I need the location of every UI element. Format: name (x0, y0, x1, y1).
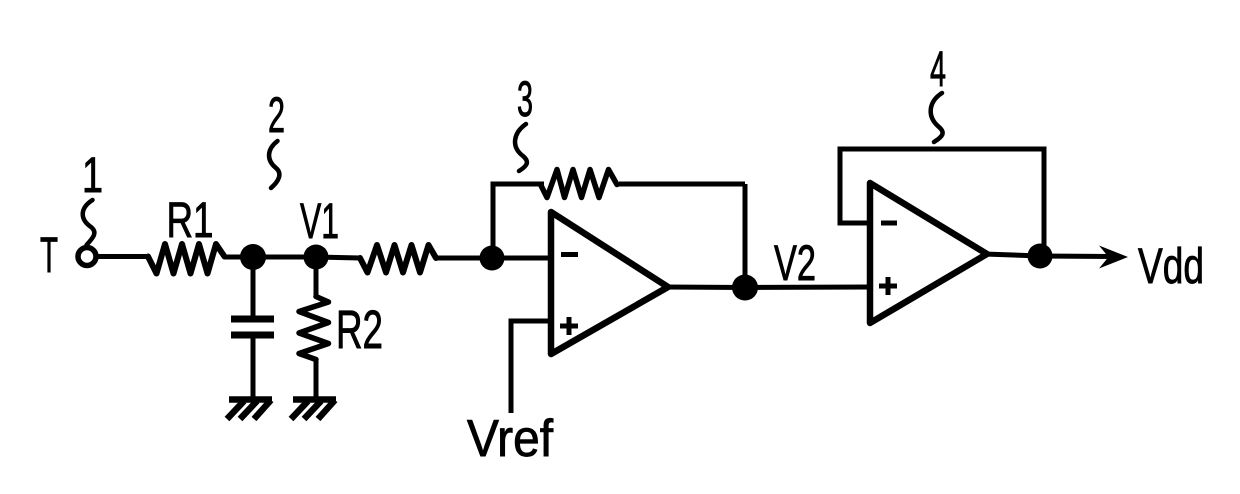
op-amp 3 non-inverting input '+' (560, 317, 578, 335)
svg-text:1: 1 (82, 147, 103, 203)
op-amp 4 triangle (870, 183, 987, 323)
output node (Vdd) junction (1028, 244, 1053, 269)
svg-text:V1: V1 (300, 193, 339, 249)
capacitor bottom plate (231, 332, 274, 339)
output node V2 junction (732, 275, 758, 301)
op-amp 4 inverting input '-' (881, 221, 897, 226)
wire: V2 to op-amp 4 non-inverting input (745, 285, 872, 291)
junction node (R1 / capacitor) (240, 244, 266, 270)
wire: junction down to capacitor (251, 257, 256, 316)
wire: series resistor to summing node (436, 256, 492, 261)
wire: terminal T to resistor R1 (98, 254, 150, 259)
output arrowhead (1099, 246, 1128, 269)
wire: node V1 down to resistor R2 (314, 257, 319, 298)
svg-text:R2: R2 (336, 300, 383, 360)
capacitor top plate (231, 316, 274, 323)
terminal T open circle (78, 248, 96, 266)
svg-text:Vref: Vref (467, 410, 554, 468)
svg-text:R1: R1 (167, 192, 214, 248)
wire: junction to node V1 (253, 255, 316, 260)
op-amp 3 triangle (551, 212, 668, 354)
feedback wire: down to output node (743, 184, 748, 288)
lead line squiggle for numeral 4 (931, 93, 943, 142)
wire: capacitor to ground (251, 338, 256, 399)
wire: op-amp 3 non-inverting input lead (511, 321, 551, 413)
op-amp 3 inverting input '-' (561, 252, 578, 257)
feedback wire: right vertical down to output (1042, 149, 1047, 256)
summing junction node (op-amp 3 inverting input) (480, 246, 505, 271)
svg-text:T: T (40, 227, 58, 283)
wire: R1 to junction node (225, 255, 253, 260)
op-amp 4 non-inverting input '+' (879, 277, 897, 295)
svg-text:2: 2 (268, 87, 285, 143)
ground symbol (R2) (291, 400, 336, 420)
resistor R2 (299, 297, 329, 360)
feedback wire: to feedback resistor (491, 182, 545, 187)
feedback wire: resistor to right vertical (619, 182, 745, 187)
svg-text:3: 3 (517, 71, 533, 127)
series input resistor (360, 245, 436, 273)
lead line squiggle for numeral 3 (515, 124, 527, 171)
wire: R2 to ground (314, 359, 319, 399)
lead line squiggle for numeral 1 (83, 200, 95, 245)
wire: op-amp 3 output (665, 285, 745, 291)
node V1 junction (304, 245, 329, 270)
lead line squiggle for numeral 2 (269, 141, 279, 188)
feedback wire: op-amp 4 inverting input to left vertical (840, 221, 872, 226)
feedback resistor (op-amp 3) (541, 170, 618, 198)
svg-text:Vdd: Vdd (1138, 238, 1204, 294)
ground symbol (capacitor) (227, 400, 272, 420)
feedback wire: left vertical up (838, 149, 843, 226)
wire: summing node to op-amp 3 inverting input (492, 256, 553, 261)
feedback wire: summing node up (491, 184, 496, 258)
resistor R1 (148, 244, 225, 274)
svg-text:V2: V2 (774, 235, 816, 291)
svg-text:4: 4 (930, 41, 946, 97)
wire: node V1 to series resistor (316, 257, 360, 258)
wire: op-amp 4 output (984, 254, 1040, 256)
feedback wire: top horizontal (838, 147, 1047, 152)
output arrow line (1040, 254, 1112, 260)
